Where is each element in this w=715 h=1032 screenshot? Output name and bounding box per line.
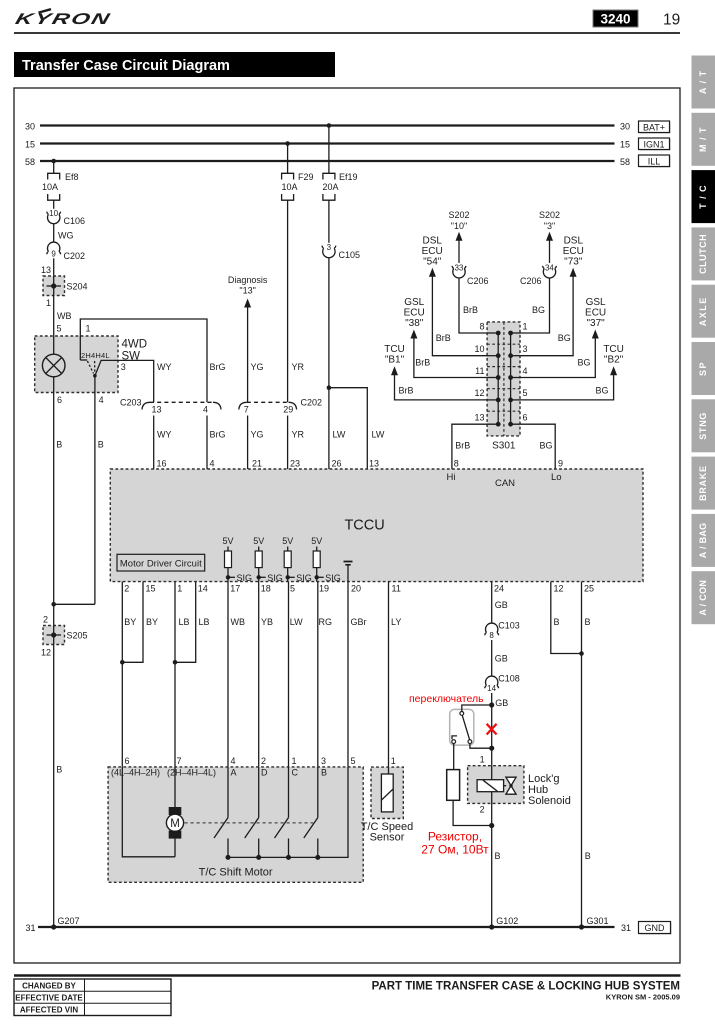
- svg-text:C206: C206: [467, 276, 489, 286]
- svg-text:17: 17: [230, 584, 240, 594]
- svg-text:10A: 10A: [282, 182, 298, 192]
- svg-text:WB: WB: [57, 311, 72, 321]
- svg-text:C106: C106: [64, 216, 86, 226]
- svg-text:RG: RG: [319, 617, 333, 627]
- svg-text:B: B: [98, 440, 104, 450]
- svg-text:GB: GB: [495, 654, 508, 664]
- svg-text:11: 11: [475, 366, 484, 376]
- svg-text:S202: S202: [448, 210, 469, 220]
- svg-text:GB: GB: [495, 600, 508, 610]
- svg-text:Diagnosis: Diagnosis: [228, 275, 268, 285]
- svg-text:34: 34: [545, 264, 554, 273]
- svg-text:3: 3: [327, 243, 332, 252]
- svg-text:M / T: M / T: [698, 127, 708, 153]
- svg-text:"B1": "B1": [385, 354, 405, 365]
- svg-text:GBr: GBr: [351, 617, 367, 627]
- svg-text:11: 11: [392, 584, 401, 594]
- svg-text:15: 15: [146, 584, 156, 594]
- svg-text:B: B: [56, 765, 62, 775]
- svg-text:4: 4: [99, 395, 104, 405]
- svg-text:BrB: BrB: [455, 441, 470, 451]
- svg-text:33: 33: [454, 264, 463, 273]
- svg-text:3: 3: [321, 756, 326, 766]
- svg-text:Solenoid: Solenoid: [528, 795, 571, 807]
- svg-text:G102: G102: [496, 916, 518, 926]
- svg-text:1: 1: [46, 298, 51, 308]
- svg-text:16: 16: [157, 459, 167, 469]
- svg-text:20: 20: [351, 584, 361, 594]
- svg-text:Transfer Case Circuit Diagram: Transfer Case Circuit Diagram: [22, 58, 230, 74]
- svg-text:C202: C202: [64, 251, 86, 261]
- svg-text:C: C: [292, 768, 299, 778]
- svg-text:BrB: BrB: [436, 333, 451, 343]
- svg-text:C206: C206: [520, 276, 542, 286]
- svg-text:LY: LY: [391, 617, 401, 627]
- svg-text:26: 26: [332, 459, 342, 469]
- svg-text:BrB: BrB: [415, 358, 430, 368]
- svg-text:BG: BG: [595, 385, 608, 395]
- svg-text:C203: C203: [120, 398, 142, 408]
- svg-text:13: 13: [151, 405, 161, 415]
- svg-text:31: 31: [621, 923, 631, 933]
- svg-text:ECU: ECU: [422, 246, 443, 257]
- svg-text:10: 10: [49, 209, 58, 218]
- svg-text:B: B: [56, 440, 62, 450]
- svg-text:Резистор,: Резистор,: [428, 830, 482, 844]
- svg-text:A / T: A / T: [698, 70, 708, 94]
- svg-text:PART TIME TRANSFER CASE & LOCK: PART TIME TRANSFER CASE & LOCKING HUB SY…: [372, 981, 680, 993]
- svg-text:Sensor: Sensor: [370, 832, 405, 844]
- svg-text:TCU: TCU: [384, 344, 405, 355]
- svg-text:Hi: Hi: [447, 472, 456, 483]
- svg-text:BrG: BrG: [210, 430, 226, 440]
- svg-text:BG: BG: [540, 441, 553, 451]
- svg-text:5: 5: [523, 388, 528, 398]
- svg-text:12: 12: [554, 584, 564, 594]
- svg-text:BrG: BrG: [210, 362, 226, 372]
- svg-text:WG: WG: [58, 231, 74, 241]
- svg-text:Lo: Lo: [551, 472, 562, 483]
- svg-text:WY: WY: [157, 362, 172, 372]
- svg-text:31: 31: [25, 923, 35, 933]
- svg-text:YR: YR: [292, 430, 305, 440]
- svg-text:AFFECTED VIN: AFFECTED VIN: [20, 1006, 78, 1015]
- svg-text:30: 30: [620, 121, 630, 131]
- svg-text:C103: C103: [498, 621, 520, 631]
- svg-text:SIG: SIG: [296, 573, 312, 583]
- svg-text:SIG: SIG: [325, 573, 341, 583]
- svg-text:2: 2: [480, 805, 485, 815]
- svg-text:5V: 5V: [222, 536, 233, 546]
- svg-text:58: 58: [620, 157, 630, 167]
- svg-text:"37": "37": [586, 318, 605, 329]
- svg-text:5V: 5V: [282, 536, 293, 546]
- svg-text:BG: BG: [532, 305, 545, 315]
- svg-text:DSL: DSL: [564, 235, 584, 246]
- svg-text:G301: G301: [587, 916, 609, 926]
- svg-text:BY: BY: [124, 617, 136, 627]
- svg-text:SIG: SIG: [267, 573, 283, 583]
- svg-text:C105: C105: [339, 250, 361, 260]
- svg-text:CAN: CAN: [495, 478, 515, 489]
- svg-text:23: 23: [290, 459, 300, 469]
- svg-text:ECU: ECU: [404, 307, 425, 318]
- svg-text:IGN1: IGN1: [643, 139, 664, 149]
- svg-text:9: 9: [51, 250, 56, 259]
- svg-text:1: 1: [523, 322, 528, 332]
- svg-text:8: 8: [489, 631, 494, 640]
- svg-text:A: A: [231, 768, 237, 778]
- svg-text:12: 12: [41, 648, 51, 658]
- svg-text:T/C Shift Motor: T/C Shift Motor: [199, 867, 273, 879]
- svg-text:S204: S204: [67, 282, 88, 292]
- svg-text:Motor Driver Circuit: Motor Driver Circuit: [120, 558, 202, 569]
- svg-text:20A: 20A: [323, 182, 339, 192]
- svg-text:KYRON: KYRON: [13, 11, 112, 28]
- svg-text:BAT+: BAT+: [643, 122, 665, 132]
- svg-text:29: 29: [283, 405, 293, 415]
- svg-text:1: 1: [292, 756, 297, 766]
- svg-text:1: 1: [177, 584, 182, 594]
- svg-text:WB: WB: [231, 617, 246, 627]
- svg-text:25: 25: [584, 584, 594, 594]
- svg-text:SP: SP: [698, 361, 708, 376]
- svg-text:YB: YB: [261, 617, 273, 627]
- svg-text:"13": "13": [239, 286, 255, 296]
- svg-text:BrB: BrB: [463, 305, 478, 315]
- svg-text:15: 15: [620, 139, 630, 149]
- svg-text:A / CON: A / CON: [698, 580, 708, 616]
- svg-text:S202: S202: [539, 210, 560, 220]
- svg-text:14: 14: [198, 584, 208, 594]
- svg-text:"73": "73": [564, 256, 583, 267]
- svg-text:6: 6: [125, 756, 130, 766]
- svg-text:BG: BG: [577, 358, 590, 368]
- svg-text:"54": "54": [423, 256, 442, 267]
- svg-text:4: 4: [210, 459, 215, 469]
- svg-text:4WD: 4WD: [122, 339, 148, 351]
- svg-text:2: 2: [43, 615, 48, 625]
- svg-text:C108: C108: [498, 674, 520, 684]
- svg-text:G207: G207: [58, 916, 80, 926]
- svg-text:B: B: [495, 851, 501, 861]
- svg-text:3: 3: [121, 362, 126, 372]
- svg-text:B: B: [554, 617, 560, 627]
- svg-text:KYRON SM - 2005.09: KYRON SM - 2005.09: [606, 993, 680, 1002]
- svg-text:(4L–4H–2H): (4L–4H–2H): [111, 768, 160, 778]
- svg-text:LB: LB: [199, 617, 210, 627]
- svg-text:ECU: ECU: [585, 307, 606, 318]
- svg-text:12: 12: [474, 388, 484, 398]
- svg-text:M: M: [170, 818, 180, 830]
- svg-text:10: 10: [474, 344, 484, 354]
- svg-text:B: B: [585, 851, 591, 861]
- svg-text:AXLE: AXLE: [698, 296, 708, 326]
- svg-text:ECU: ECU: [563, 246, 584, 257]
- svg-text:10A: 10A: [42, 182, 58, 192]
- svg-text:"38": "38": [405, 318, 424, 329]
- svg-text:A / BAG: A / BAG: [698, 523, 708, 559]
- svg-text:6: 6: [523, 413, 528, 423]
- svg-text:YG: YG: [251, 430, 264, 440]
- svg-text:D: D: [261, 768, 268, 778]
- svg-text:2: 2: [124, 584, 129, 594]
- svg-text:6: 6: [57, 395, 62, 405]
- svg-text:"3": "3": [544, 221, 555, 231]
- svg-text:19: 19: [319, 584, 329, 594]
- svg-text:Ef8: Ef8: [65, 172, 79, 182]
- svg-text:SIG: SIG: [237, 573, 253, 583]
- svg-text:S205: S205: [67, 631, 88, 641]
- svg-text:YR: YR: [292, 362, 305, 372]
- svg-text:4: 4: [203, 405, 208, 415]
- svg-text:GND: GND: [645, 923, 666, 933]
- svg-text:S301: S301: [492, 441, 516, 452]
- svg-text:9: 9: [558, 459, 563, 469]
- svg-text:5V: 5V: [311, 536, 322, 546]
- svg-text:B: B: [321, 768, 327, 778]
- svg-text:5V: 5V: [253, 536, 264, 546]
- svg-text:GB: GB: [495, 698, 508, 708]
- svg-text:5: 5: [57, 324, 62, 334]
- svg-text:58: 58: [25, 157, 35, 167]
- svg-text:8: 8: [454, 459, 459, 469]
- svg-text:DSL: DSL: [422, 235, 442, 246]
- svg-text:19: 19: [663, 12, 680, 29]
- svg-text:TCCU: TCCU: [344, 518, 384, 534]
- svg-text:Ef19: Ef19: [339, 172, 358, 182]
- svg-text:LW: LW: [372, 430, 385, 440]
- svg-text:"B2": "B2": [604, 354, 624, 365]
- svg-text:GSL: GSL: [586, 297, 606, 308]
- svg-text:C202: C202: [301, 398, 323, 408]
- svg-text:TCU: TCU: [603, 344, 624, 355]
- svg-text:BRAKE: BRAKE: [698, 465, 708, 501]
- svg-text:2: 2: [261, 756, 266, 766]
- svg-text:"10": "10": [451, 221, 467, 231]
- svg-text:13: 13: [369, 459, 379, 469]
- svg-text:3240: 3240: [600, 11, 630, 26]
- svg-text:1: 1: [480, 754, 485, 764]
- svg-text:BG: BG: [558, 333, 571, 343]
- svg-text:ILL: ILL: [648, 156, 661, 166]
- svg-text:YG: YG: [251, 362, 264, 372]
- svg-text:LB: LB: [179, 617, 190, 627]
- svg-text:EFFECTIVE DATE: EFFECTIVE DATE: [15, 993, 83, 1002]
- svg-text:2H4H4L: 2H4H4L: [81, 351, 110, 360]
- svg-text:LW: LW: [333, 430, 346, 440]
- svg-text:BrB: BrB: [399, 385, 414, 395]
- svg-text:30: 30: [25, 121, 35, 131]
- svg-text:5: 5: [290, 584, 295, 594]
- svg-text:LW: LW: [290, 617, 303, 627]
- svg-text:3: 3: [523, 344, 528, 354]
- svg-text:13: 13: [474, 413, 484, 423]
- svg-text:8: 8: [479, 322, 484, 332]
- svg-text:B: B: [585, 617, 591, 627]
- svg-text:T / C: T / C: [698, 184, 708, 209]
- svg-text:15: 15: [25, 139, 35, 149]
- svg-text:STNG: STNG: [698, 412, 708, 440]
- svg-text:1: 1: [391, 756, 396, 766]
- svg-text:4: 4: [523, 366, 528, 376]
- svg-text:BY: BY: [146, 617, 158, 627]
- svg-text:14: 14: [487, 684, 496, 693]
- svg-text:21: 21: [252, 459, 262, 469]
- svg-text:CHANGED BY: CHANGED BY: [22, 981, 76, 990]
- svg-text:CLUTCH: CLUTCH: [698, 234, 708, 274]
- svg-text:1: 1: [86, 324, 91, 334]
- svg-text:7: 7: [244, 405, 249, 415]
- svg-text:7: 7: [177, 756, 182, 766]
- svg-text:5: 5: [351, 756, 356, 766]
- svg-text:24: 24: [494, 584, 504, 594]
- svg-text:27 Ом, 10Вт: 27 Ом, 10Вт: [421, 843, 489, 857]
- svg-text:F29: F29: [298, 172, 314, 182]
- svg-text:WY: WY: [157, 430, 172, 440]
- svg-text:18: 18: [261, 584, 271, 594]
- svg-text:13: 13: [41, 265, 51, 275]
- svg-text:4: 4: [231, 756, 236, 766]
- svg-text:GSL: GSL: [404, 297, 424, 308]
- svg-text:переключатель: переключатель: [409, 693, 484, 705]
